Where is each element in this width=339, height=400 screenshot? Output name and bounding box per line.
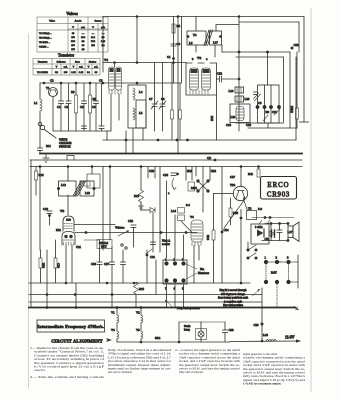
resistor R6	[172, 24, 175, 33]
trimmer C7	[151, 101, 158, 109]
svg-text:2: 2	[276, 256, 278, 260]
wire rail y283	[29, 282, 250, 284]
capacitor C9	[94, 101, 99, 104]
text column 1	[30, 346, 105, 379]
inner box	[136, 100, 146, 128]
output transformer T2 box	[247, 211, 257, 220]
wire vertical x173.5	[173, 17, 175, 84]
arrow 11.5V	[296, 339, 301, 342]
speaker	[288, 226, 293, 238]
svg-text:C1: C1	[167, 55, 171, 59]
svg-text:R9: R9	[266, 110, 270, 114]
svg-text:9.4: 9.4	[186, 203, 190, 207]
valve V3 bottom section	[62, 232, 75, 246]
svg-text:36: 36	[82, 45, 85, 47]
cluster vertical a	[264, 85, 266, 123]
wire x230.5	[230, 198, 232, 208]
svg-text:L1: L1	[34, 101, 38, 105]
capacitor C3	[82, 101, 87, 104]
svg-text:Numbers: Numbers	[198, 271, 210, 275]
svg-text:C31: C31	[150, 255, 156, 259]
capacitor C22	[220, 76, 222, 82]
wire x241 down	[240, 210, 242, 284]
svg-text:L4: L4	[139, 90, 143, 94]
wire heater column x141	[140, 308, 142, 316]
svg-text:170: 170	[71, 45, 75, 47]
svg-text:R30: R30	[42, 263, 46, 269]
wire T2 emitter diagonal	[224, 199, 245, 228]
capacitor C28	[223, 330, 228, 333]
mains transformer secondary box	[210, 31, 222, 45]
node junctions y166	[39, 166, 41, 168]
svg-text:C26: C26	[163, 173, 169, 177]
wire x160 vertical	[159, 167, 161, 253]
wire to bold rail	[39, 151, 41, 154]
svg-text:mA: mA	[81, 26, 85, 29]
wire x123	[122, 250, 124, 262]
svg-text:Transistor: Transistor	[58, 53, 75, 58]
svg-text:V3: V3	[60, 209, 64, 213]
resistor R41	[257, 169, 260, 177]
svg-text:C2: C2	[50, 79, 54, 83]
svg-text:C7: C7	[149, 97, 153, 101]
wire rail y159.5	[30, 159, 302, 161]
wire collect line y131	[53, 130, 111, 132]
svg-text:lamp: lamp	[184, 328, 190, 332]
svg-text:T1 OC81D: T1 OC81D	[37, 71, 48, 74]
resistor R16	[139, 190, 144, 202]
wire vertical x283.5	[283, 57, 285, 122]
wire x216 drop	[216, 95, 218, 140]
svg-text:C15: C15	[226, 123, 232, 127]
wire V3 anode lines	[74, 224, 115, 226]
wire x47 column	[46, 250, 48, 308]
svg-text:C4 (A6) for maximum output.: C4 (A6) for maximum output.	[243, 382, 282, 386]
svg-text:0.15: 0.15	[71, 71, 76, 74]
svg-text:C4: C4	[177, 42, 181, 46]
T2 internals	[237, 190, 244, 192]
svg-text:L17: L17	[288, 230, 293, 234]
heater V2 coil	[141, 315, 143, 323]
svg-text:b: b	[192, 57, 194, 61]
wire heater column x117	[116, 308, 118, 316]
plug B pins row2	[264, 280, 267, 283]
IF can frame	[230, 104, 250, 123]
node speaker dots	[287, 223, 289, 225]
valve V2 element a	[190, 68, 199, 90]
transistor T2 circle	[233, 186, 247, 200]
wire vertical x147 lower	[146, 250, 148, 283]
wire cluster tap down	[267, 123, 269, 128]
wire x99.5	[99, 240, 101, 262]
capacitor column C31	[121, 262, 126, 265]
wire transformer primary bottom lead	[195, 45, 197, 52]
diode dot a	[256, 106, 259, 109]
svg-text:TR1: TR1	[230, 183, 236, 187]
node junction y52 x239	[238, 51, 240, 53]
wire transformer secondary top lead	[216, 25, 239, 32]
wire x180	[179, 83, 181, 110]
diode arrows	[254, 93, 261, 101]
plug A pins row1	[165, 262, 168, 265]
svg-text:put can be obtained.: put can be obtained.	[108, 370, 132, 374]
svg-text:C22: C22	[217, 72, 223, 76]
valves table header text	[49, 20, 105, 29]
svg-text:0.9: 0.9	[82, 41, 86, 43]
svg-text:V: V	[72, 26, 74, 29]
svg-text:Volume: Volume	[115, 226, 125, 230]
svg-text:Valve: Valve	[49, 20, 56, 23]
coil L5	[133, 108, 135, 120]
wire plug A verticals up	[166, 181, 168, 258]
plug A pins row2	[165, 279, 168, 282]
svg-text:V1 6C9(m) ...: V1 6C9(m) ...	[39, 32, 52, 35]
wire left drop from top rail	[102, 17, 104, 63]
svg-text:V4: V4	[190, 215, 194, 219]
wire x36	[35, 167, 37, 172]
wire heater rail y342	[117, 341, 230, 343]
wire x222	[221, 167, 223, 284]
aerial coil L1	[40, 99, 42, 111]
IF2 core hatch	[73, 181, 86, 196]
wire tick end x304	[300, 121, 309, 123]
node C26 dot	[177, 173, 179, 175]
page fold line right	[310, 8, 312, 392]
pointer lines to pins	[186, 264, 197, 269]
wire x172	[171, 63, 173, 111]
pointer to socket	[252, 289, 260, 296]
svg-text:C32: C32	[294, 43, 300, 47]
diode across speaker	[270, 231, 275, 236]
plug B pins row1	[264, 260, 267, 263]
wire transformer primary top lead	[195, 17, 197, 32]
svg-text:—: —	[81, 33, 85, 35]
capacitor column C27	[110, 262, 115, 265]
node transformer left dot	[187, 36, 189, 38]
valves table rows text	[39, 32, 52, 49]
rectifier box	[251, 224, 269, 244]
resistor R8b	[39, 258, 42, 268]
svg-text:Valves: Valves	[66, 11, 78, 16]
svg-text:2.9: 2.9	[102, 37, 106, 39]
plug note text	[218, 289, 249, 307]
svg-text:R16: R16	[134, 194, 140, 198]
volume control pot	[118, 231, 128, 236]
wire stub x192	[191, 167, 193, 181]
svg-text:175: 175	[71, 49, 75, 51]
svg-text:SKT: SKT	[101, 245, 107, 249]
svg-text:L20: L20	[245, 97, 250, 101]
text column 4	[243, 352, 306, 386]
wire vertical x297	[296, 52, 298, 108]
wire x143 drop	[142, 128, 144, 140]
coil L16 on rail	[266, 339, 276, 341]
wire T1 down	[52, 97, 54, 132]
cluster vertical b	[270, 85, 272, 123]
switch contact cluster	[247, 249, 249, 251]
resistor R5	[89, 95, 92, 113]
wire C22 to x239	[223, 78, 240, 80]
wire return y128	[248, 127, 297, 129]
svg-text:30kΩ: 30kΩ	[290, 106, 294, 114]
resistor R14 vertical	[296, 108, 299, 119]
svg-text:1: 1	[265, 256, 267, 260]
diode D2	[150, 208, 155, 213]
wire x136	[135, 282, 137, 285]
svg-text:BAT: BAT	[271, 271, 277, 275]
wire verticals trimmers	[154, 63, 156, 105]
svg-text:L16: L16	[263, 333, 268, 337]
svg-text:V3: V3	[136, 328, 140, 332]
svg-text:V4 N17 ...: V4 N17 ...	[39, 47, 49, 49]
wire y240 stub	[84, 239, 100, 241]
heater V3 coil	[141, 331, 143, 339]
transformer core	[204, 30, 209, 46]
wire IF2 top	[67, 167, 69, 182]
wire rect to speaker bottom	[262, 240, 288, 242]
wire rail y22	[239, 21, 299, 23]
svg-text:C21: C21	[76, 245, 82, 249]
wire x178 connector	[177, 140, 179, 154]
svg-text:R11: R11	[46, 144, 51, 148]
heater V4 coil	[117, 331, 119, 339]
svg-text:L5: L5	[139, 111, 143, 115]
node top rail dots	[136, 16, 138, 18]
wave change switch circle	[40, 125, 44, 129]
wire x112	[111, 247, 113, 262]
wire V4 pins	[193, 246, 195, 284]
wire MR1 bottom	[202, 194, 204, 212]
capacitor C4	[171, 44, 176, 46]
node CD junction	[214, 159, 216, 161]
resistor R25	[229, 208, 232, 217]
svg-text:C30: C30	[57, 263, 61, 269]
wire stub x186	[185, 167, 187, 181]
svg-text:C2: C2	[65, 105, 69, 109]
svg-text:R15: R15	[139, 287, 145, 291]
wire x96	[95, 83, 97, 101]
svg-text:C9: C9	[92, 105, 96, 109]
svg-text:C20: C20	[91, 262, 97, 266]
wire rail y166.5	[30, 166, 302, 168]
svg-text:CR903: CR903	[267, 192, 290, 199]
pointer curve	[172, 178, 174, 189]
svg-text:3: 3	[287, 256, 289, 260]
wire x40 down	[39, 167, 41, 251]
wire vertical x296 corner	[295, 57, 297, 140]
valve V1 element b	[116, 67, 122, 90]
wire V2 to C22	[217, 78, 219, 80]
svg-text:R22: R22	[211, 169, 217, 173]
resistor R3	[75, 95, 78, 113]
wire bold HT rail y153	[40, 153, 302, 155]
wire stub x210	[209, 167, 211, 181]
svg-text:mA: mA	[79, 65, 83, 68]
resistor R9	[179, 110, 182, 119]
wire R19 stubs	[91, 167, 93, 174]
right cluster frame	[258, 85, 280, 123]
wire V3 pins down	[65, 245, 67, 283]
svg-text:C28: C28	[229, 328, 235, 332]
heater V1 coil	[117, 315, 119, 323]
svg-text:R18: R18	[39, 173, 45, 177]
svg-text:5-0: 5-0	[258, 207, 262, 211]
svg-text:T2: T2	[248, 207, 252, 211]
node dots y62.5	[114, 62, 116, 64]
svg-text:8.2: 8.2	[55, 71, 59, 74]
capacitor C10	[99, 126, 104, 129]
svg-text:C25: C25	[149, 169, 155, 173]
wire lamp	[200, 337, 202, 342]
svg-text:R25: R25	[233, 211, 239, 215]
svg-text:V3 6LD3 ...: V3 6LD3 ...	[39, 42, 50, 44]
resistor R18	[35, 171, 38, 180]
node C24	[221, 231, 223, 233]
wire MR1 top	[202, 167, 204, 179]
svg-text:C27: C27	[104, 262, 110, 266]
svg-text:Screen: Screen	[95, 20, 103, 23]
wire x103 stub	[102, 63, 104, 73]
capacitor second row on x84	[82, 126, 87, 129]
wire x179 drop	[178, 322, 180, 342]
wire x68.5	[68, 83, 70, 101]
svg-text:fully anti-clockwise.: fully anti-clockwise.	[179, 370, 204, 374]
wire rail y83	[40, 82, 181, 84]
svg-text:R21: R21	[56, 228, 62, 232]
wire x126 connector	[125, 131, 127, 154]
capacitor C19	[47, 211, 52, 214]
svg-text:C16: C16	[246, 123, 252, 127]
svg-text:L13: L13	[85, 191, 90, 195]
valve V4 comb	[192, 242, 201, 246]
svg-text:100: 100	[64, 71, 68, 74]
switch pointer line	[45, 130, 57, 139]
wire T2 base left	[222, 193, 234, 195]
valve V3 top section	[63, 216, 74, 231]
svg-text:11.0: 11.0	[91, 37, 96, 39]
svg-text:8.1: 8.1	[87, 71, 91, 74]
page fold line left	[28, 34, 30, 388]
svg-text:L17: L17	[213, 41, 218, 45]
svg-text:mA: mA	[64, 65, 68, 68]
wire vertical x137	[136, 17, 138, 63]
resistor R8	[171, 110, 174, 119]
resistor R24	[212, 230, 215, 240]
svg-text:77.5: 77.5	[71, 41, 76, 43]
svg-text:c: c	[206, 57, 208, 61]
svg-text:10.5: 10.5	[81, 37, 86, 39]
wire x90	[89, 83, 91, 95]
svg-text:2.45: 2.45	[101, 41, 106, 43]
svg-text:V2: V2	[197, 56, 201, 60]
on-off switch notch in rail	[67, 156, 74, 161]
svg-text:R6: R6	[177, 24, 181, 28]
wire return y123	[236, 122, 284, 124]
wire vertical x178	[177, 17, 179, 141]
IF transformer L20 coil	[235, 96, 244, 102]
node switch contact circle	[38, 122, 42, 126]
wire x213.5	[213, 194, 215, 231]
svg-text:R3: R3	[71, 90, 75, 94]
svg-text:R41: R41	[248, 172, 254, 176]
svg-text:50Ω: 50Ω	[155, 336, 161, 340]
wire drop to rail y140	[106, 131, 108, 140]
node dot x241 y218	[240, 217, 242, 219]
svg-text:Anode: Anode	[75, 20, 83, 23]
svg-text:V2: V2	[136, 311, 140, 315]
wire TR1 collector to T2	[244, 200, 248, 211]
text column 2	[108, 348, 172, 374]
svg-text:V1: V1	[104, 58, 108, 62]
svg-text:V1: V1	[111, 311, 115, 315]
node antenna dot	[291, 47, 293, 49]
wire rail y294.5	[29, 294, 262, 296]
svg-text:R24: R24	[206, 235, 210, 241]
text column 3	[175, 348, 241, 374]
valve V1 element a	[109, 67, 115, 90]
wire vertical x156 lower	[155, 260, 157, 295]
resistor block R19	[87, 174, 100, 188]
wire plug B stub down	[261, 288, 263, 341]
wire bend to diode	[141, 209, 150, 211]
svg-text:to negative earth: to negative earth	[224, 300, 243, 303]
svg-text:172: 172	[91, 45, 95, 47]
pointer plug earth	[165, 300, 172, 307]
wire IF2 bottom	[67, 195, 69, 215]
bold rail end arrow	[294, 307, 299, 310]
svg-text:Base: Base	[75, 60, 80, 63]
transistor table	[33, 59, 100, 76]
svg-text:V4: V4	[111, 328, 115, 332]
wire vertical x267	[267, 52, 269, 85]
capacitor C26	[171, 173, 176, 176]
wire dashed drop x277	[276, 284, 278, 308]
wire vertical x181.5	[181, 17, 183, 84]
wire diagonal to V4	[181, 221, 192, 233]
capacitor near volume	[131, 225, 136, 228]
wire stub x155	[154, 167, 156, 179]
wire R41	[258, 167, 260, 170]
svg-text:98: 98	[95, 71, 98, 74]
node C1 junction	[173, 58, 175, 60]
wire x55.5	[55, 240, 57, 258]
IF transformer 2 box L12	[59, 181, 77, 196]
svg-text:Key earth position: Key earth position	[223, 304, 244, 307]
transistor T1 circle	[49, 88, 58, 97]
wire y322 link	[179, 321, 225, 323]
svg-text:C1: C1	[57, 105, 61, 109]
svg-text:CIRCUIT ALIGNMENT: CIRCUIT ALIGNMENT	[51, 339, 103, 344]
diode dot d	[278, 106, 281, 109]
wire bold rail y307.5	[29, 307, 295, 309]
svg-text:V: V	[92, 26, 94, 29]
capacitor column C20	[97, 262, 102, 265]
svg-text:T4: T4	[193, 33, 197, 37]
trimmer C8	[159, 101, 166, 109]
wire grid rail y62.5	[103, 62, 186, 64]
node transformer right dot	[220, 36, 222, 38]
svg-text:T1: T1	[46, 86, 50, 90]
svg-text:C23: C23	[128, 219, 134, 223]
coil cans L14 L15	[178, 208, 185, 214]
svg-text:a: a	[168, 191, 170, 195]
wire top HT rail	[103, 16, 304, 18]
wire x61	[60, 83, 62, 101]
wire rail y140	[103, 139, 296, 141]
svg-text:V: V	[56, 65, 58, 68]
wire speaker column	[287, 224, 289, 227]
svg-text:Plug B is moved through: Plug B is moved through	[220, 289, 248, 292]
